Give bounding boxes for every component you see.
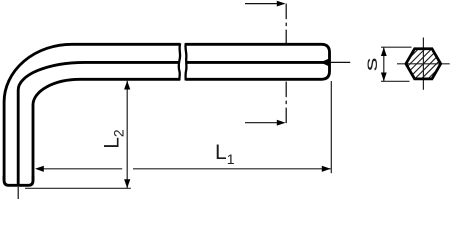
svg-text:s: s [361,57,380,71]
